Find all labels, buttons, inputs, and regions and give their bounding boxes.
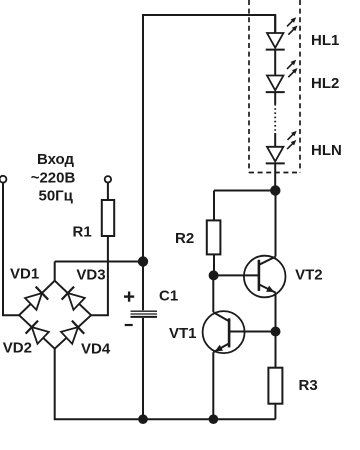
wire VT2 collector rail [214,190,276,192]
svg-text:VD3: VD3 [76,266,105,283]
node VT1 emitter junction [209,414,219,424]
wire bridge top stub [54,262,56,281]
terminal input left [0,176,6,183]
svg-text:R3: R3 [299,377,318,394]
wire top rail [143,15,275,262]
resistor R3 [268,368,282,404]
svg-text:C1: C1 [159,288,178,305]
wire R2 top lead [213,191,215,221]
svg-text:HL2: HL2 [311,75,339,92]
diode VD2 [26,321,50,345]
wire terminal to R1 [107,183,109,200]
node C1 bottom junction [138,414,148,424]
transistor VT2 [214,256,286,298]
wire HLN to node [274,163,276,190]
wire VT2 collector up [275,191,277,257]
C1 plus sign [124,292,134,302]
diode VD4 [60,321,84,345]
node C1 top junction [138,256,148,266]
dashed box LED group [249,0,300,173]
LED HLN [266,131,297,164]
svg-text:VD4: VD4 [81,340,111,357]
wire VT1 collector up [212,275,214,312]
resistor R2 [207,220,221,254]
transistor VT1 [203,311,276,353]
C1 minus sign [125,324,133,326]
wire bridge edge bottom-left [19,315,55,349]
LED HL2 [266,60,298,92]
wire R2 bottom lead [213,254,215,275]
resistor R1 [102,200,114,236]
wire bridge top to C1 node [55,261,143,263]
svg-text:R2: R2 [175,230,194,247]
svg-text:R1: R1 [73,224,92,241]
svg-text:VT2: VT2 [295,266,323,283]
svg-text:VD2: VD2 [3,339,32,356]
LED HL1 [266,15,298,50]
wire R3 top lead [275,332,277,368]
svg-text:HLN: HLN [311,142,342,159]
wire bridge edge top-left [19,281,55,316]
diode VD1 [24,287,48,311]
node B emitter junction [271,327,281,337]
svg-text:HL1: HL1 [311,32,339,49]
node LED bottom junction [270,185,280,195]
wire R3 bottom lead [274,404,276,420]
svg-text:~220В: ~220В [31,170,76,187]
capacitor C1 [131,262,158,420]
wire HL1 to HL2 [274,50,276,76]
svg-text:50Гц: 50Гц [38,187,73,204]
node A base junction [209,270,219,280]
wire HL2 down + dotted continuation [274,92,276,147]
wire bridge edge top-right [55,281,91,316]
wire input left down [3,183,19,315]
wire bridge bottom stub [55,349,276,420]
wire R1 bottom to bridge right [91,236,108,315]
svg-text:VD1: VD1 [10,265,39,282]
wire bridge edge bottom-right [55,315,91,349]
wire VT1 emitter down [212,352,214,419]
terminal input right [105,176,111,182]
wire VT2 emitter down [275,293,277,332]
svg-text:Вход: Вход [37,151,75,168]
svg-text:VT1: VT1 [169,325,197,342]
diode VD3 [62,287,86,311]
